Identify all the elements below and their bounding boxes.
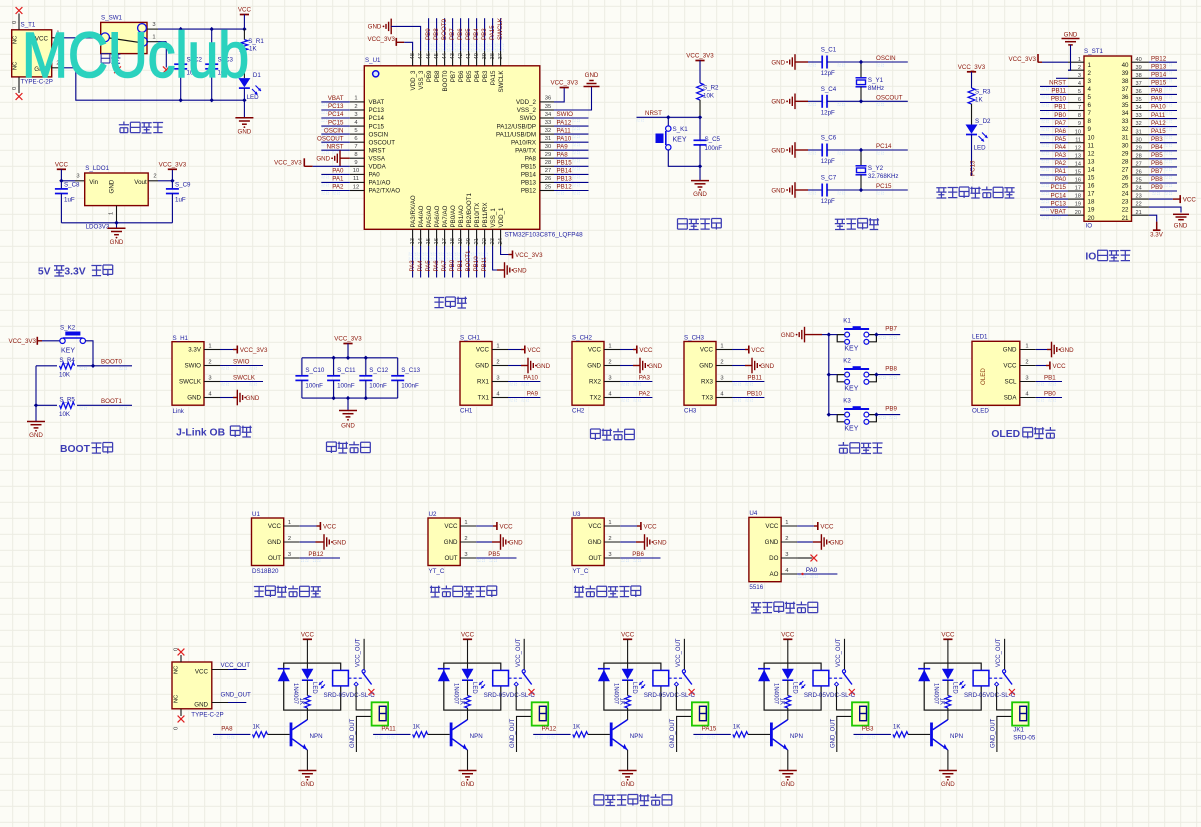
svg-text:PB9: PB9	[425, 28, 432, 40]
svg-text:13: 13	[410, 238, 416, 244]
svg-text:28: 28	[545, 160, 551, 166]
svg-text:VCC: VCC	[588, 523, 602, 530]
svg-text:VDD_3: VDD_3	[410, 70, 417, 91]
svg-text:44: 44	[442, 52, 448, 59]
svg-text:39: 39	[482, 53, 488, 59]
svg-text:10: 10	[1075, 129, 1081, 135]
svg-text:PC15: PC15	[876, 183, 892, 190]
svg-text:1N4007: 1N4007	[292, 683, 298, 705]
svg-text:PA10/RX: PA10/RX	[511, 139, 536, 146]
svg-text:32: 32	[1122, 126, 1129, 133]
svg-text:PB5: PB5	[488, 551, 500, 558]
svg-text:PC15: PC15	[369, 123, 385, 130]
svg-text:VCC: VCC	[765, 523, 779, 530]
svg-text:VSS_2: VSS_2	[517, 107, 537, 114]
svg-text:VCC: VCC	[476, 347, 490, 354]
svg-text:3: 3	[354, 112, 357, 118]
svg-text:PB5: PB5	[466, 70, 473, 82]
svg-text:VCC_OUT: VCC_OUT	[996, 638, 1002, 667]
svg-text:30: 30	[1136, 137, 1142, 143]
svg-text:BOOT0: BOOT0	[442, 70, 449, 92]
svg-text:PB2/BOOT1: PB2/BOOT1	[466, 193, 473, 228]
svg-text:GND: GND	[301, 781, 315, 788]
svg-text:VCC: VCC	[781, 631, 795, 638]
svg-text:GND: GND	[332, 539, 346, 546]
svg-text:SRD-05VDC-SL-C: SRD-05VDC-SL-C	[324, 692, 376, 699]
svg-text:1uF: 1uF	[175, 197, 186, 204]
svg-text:3: 3	[785, 552, 788, 558]
svg-text:15: 15	[1075, 170, 1081, 176]
svg-text:CH3: CH3	[684, 408, 697, 415]
svg-text:1: 1	[109, 212, 115, 215]
svg-text:23: 23	[1122, 199, 1129, 206]
svg-text:0: 0	[12, 87, 18, 90]
svg-text:GND: GND	[588, 539, 602, 546]
svg-text:GND: GND	[187, 395, 201, 402]
svg-text:22: 22	[482, 238, 488, 244]
svg-text:17: 17	[1088, 191, 1095, 198]
svg-text:SWCLK: SWCLK	[498, 70, 505, 93]
svg-text:4: 4	[1078, 81, 1081, 87]
svg-text:39: 39	[1136, 65, 1142, 71]
svg-text:GND: GND	[341, 423, 355, 430]
svg-text:32.768KHz: 32.768KHz	[868, 173, 899, 180]
svg-text:19: 19	[1088, 207, 1095, 214]
svg-text:VDD_2: VDD_2	[516, 99, 537, 106]
svg-text:VCC_3V3: VCC_3V3	[367, 36, 395, 43]
svg-text:U1: U1	[252, 511, 260, 518]
svg-text:VCC_OUT: VCC_OUT	[221, 662, 251, 669]
svg-text:1: 1	[288, 520, 291, 526]
svg-text:35: 35	[1122, 102, 1129, 109]
svg-text:AO: AO	[769, 571, 778, 578]
svg-text:S_U1: S_U1	[365, 57, 381, 64]
svg-text:VCC: VCC	[195, 669, 209, 676]
svg-text:PA6: PA6	[433, 260, 440, 272]
svg-text:SWCLK: SWCLK	[179, 379, 202, 386]
svg-text:PA11: PA11	[381, 725, 396, 732]
svg-text:GND: GND	[109, 179, 116, 193]
svg-text:PB1: PB1	[457, 259, 464, 271]
svg-text:2: 2	[608, 360, 611, 366]
svg-text:PB7: PB7	[885, 326, 897, 333]
svg-text:PA8: PA8	[221, 725, 233, 732]
svg-text:VCC_3V3: VCC_3V3	[958, 64, 986, 71]
svg-text:40: 40	[1122, 62, 1129, 69]
svg-text:PA11: PA11	[1151, 112, 1166, 119]
svg-text:OSCIN: OSCIN	[324, 127, 344, 134]
svg-text:2: 2	[720, 360, 723, 366]
svg-text:PA10: PA10	[557, 135, 572, 142]
svg-text:NC: NC	[13, 36, 19, 44]
svg-text:6: 6	[1078, 97, 1081, 103]
svg-text:7: 7	[1088, 110, 1092, 117]
svg-text:GND: GND	[648, 363, 662, 370]
svg-text:SRD-05VDC-SL-C: SRD-05VDC-SL-C	[644, 692, 696, 699]
svg-text:KEY: KEY	[61, 348, 75, 355]
svg-text:RX3: RX3	[701, 379, 714, 386]
svg-text:PA11: PA11	[557, 127, 572, 134]
svg-text:37: 37	[1122, 86, 1129, 93]
svg-text:2: 2	[208, 360, 211, 366]
svg-text:PA12/USB/DP: PA12/USB/DP	[497, 123, 536, 130]
svg-text:38: 38	[490, 53, 496, 59]
svg-text:3.3V: 3.3V	[64, 267, 85, 278]
svg-text:12pF: 12pF	[821, 158, 835, 165]
svg-text:25: 25	[545, 184, 551, 190]
svg-text:VDDA: VDDA	[369, 164, 387, 171]
svg-text:LED: LED	[631, 682, 637, 694]
svg-text:36: 36	[1136, 89, 1142, 95]
svg-text:VCC: VCC	[461, 631, 475, 638]
svg-text:S_R5: S_R5	[59, 397, 75, 404]
svg-text:VCC_OUT: VCC_OUT	[676, 638, 682, 667]
svg-text:S_C12: S_C12	[369, 367, 388, 374]
svg-text:19: 19	[458, 238, 464, 244]
svg-text:GND: GND	[475, 363, 489, 370]
svg-text:PA2: PA2	[332, 184, 344, 191]
svg-text:OUT: OUT	[444, 555, 457, 562]
svg-text:S_R4: S_R4	[59, 357, 75, 364]
svg-text:PB8: PB8	[434, 70, 441, 82]
svg-text:STM32F103C8T6_LQFP48: STM32F103C8T6_LQFP48	[505, 232, 584, 239]
svg-text:1: 1	[496, 344, 499, 350]
svg-text:LED: LED	[311, 682, 317, 694]
svg-text:5: 5	[1088, 94, 1092, 101]
svg-text:PA1: PA1	[332, 176, 344, 183]
svg-text:OLED: OLED	[991, 429, 1020, 440]
svg-text:Vin: Vin	[89, 179, 98, 186]
svg-text:PA10: PA10	[523, 374, 538, 381]
svg-text:23: 23	[490, 238, 496, 244]
svg-text:PA0: PA0	[369, 172, 381, 179]
svg-text:GND: GND	[621, 781, 635, 788]
svg-text:VBAT: VBAT	[328, 95, 344, 102]
svg-text:PB9: PB9	[426, 70, 433, 82]
svg-text:VSS_1: VSS_1	[490, 208, 497, 228]
svg-text:8: 8	[1078, 113, 1081, 119]
svg-text:PA0: PA0	[806, 567, 818, 574]
svg-text:PB3: PB3	[862, 725, 874, 732]
svg-text:31: 31	[1136, 129, 1142, 135]
svg-text:5516: 5516	[749, 584, 763, 591]
svg-text:31: 31	[545, 136, 551, 142]
svg-text:3: 3	[464, 552, 467, 558]
svg-text:PB7: PB7	[450, 70, 457, 82]
svg-text:26: 26	[1122, 175, 1129, 182]
svg-text:VCC: VCC	[1183, 196, 1197, 203]
svg-text:1K: 1K	[413, 724, 420, 730]
svg-text:GND: GND	[509, 539, 523, 546]
svg-text:OSCOUT: OSCOUT	[876, 94, 903, 101]
svg-text:1: 1	[1088, 62, 1092, 69]
svg-text:S_C13: S_C13	[401, 367, 420, 374]
svg-text:31: 31	[1122, 134, 1129, 141]
svg-text:PB15: PB15	[1151, 80, 1167, 87]
svg-text:SWIO: SWIO	[233, 359, 250, 366]
svg-text:PC13: PC13	[1051, 200, 1067, 207]
svg-text:PA0: PA0	[332, 168, 344, 175]
svg-text:PB11: PB11	[481, 256, 488, 271]
svg-text:PA2: PA2	[1055, 160, 1067, 167]
svg-text:GND: GND	[781, 332, 795, 339]
svg-text:GND: GND	[238, 128, 252, 135]
svg-text:KEY: KEY	[673, 137, 687, 144]
svg-text:1K: 1K	[618, 698, 624, 705]
svg-text:28: 28	[1122, 158, 1129, 165]
svg-text:9: 9	[354, 160, 357, 166]
svg-text:BOOT0: BOOT0	[441, 18, 448, 40]
svg-text:16: 16	[1088, 183, 1095, 190]
svg-text:42: 42	[458, 53, 464, 59]
svg-text:PA8: PA8	[525, 155, 537, 162]
svg-text:23: 23	[1136, 194, 1142, 200]
svg-text:GND_OUT: GND_OUT	[350, 718, 356, 748]
svg-text:NPN: NPN	[790, 733, 803, 740]
svg-text:11: 11	[1088, 142, 1095, 149]
svg-text:1: 1	[208, 344, 211, 350]
svg-text:26: 26	[1136, 170, 1142, 176]
svg-text:5V: 5V	[38, 267, 51, 278]
svg-text:1K: 1K	[298, 698, 304, 705]
svg-text:VCC_3V3: VCC_3V3	[159, 161, 187, 168]
svg-text:BOOT: BOOT	[60, 444, 91, 455]
svg-text:GND: GND	[693, 191, 707, 198]
svg-text:PA2: PA2	[639, 390, 651, 397]
svg-text:PA8: PA8	[557, 151, 569, 158]
svg-text:LED: LED	[247, 94, 260, 101]
svg-text:CH2: CH2	[572, 408, 585, 415]
svg-text:1K: 1K	[939, 698, 945, 705]
svg-text:2: 2	[288, 536, 291, 542]
svg-text:PB12: PB12	[1151, 55, 1167, 62]
svg-text:VCC: VCC	[621, 631, 635, 638]
svg-text:S_C10: S_C10	[305, 367, 324, 374]
svg-text:NPN: NPN	[950, 733, 963, 740]
svg-text:VCC_3V3: VCC_3V3	[8, 338, 36, 345]
svg-text:S_C5: S_C5	[705, 136, 721, 143]
svg-text:K2: K2	[843, 358, 851, 365]
svg-text:SRD-05VDC-SL-C: SRD-05VDC-SL-C	[484, 692, 536, 699]
svg-text:VCC_3V3: VCC_3V3	[334, 336, 362, 343]
svg-text:JK1: JK1	[1013, 727, 1024, 734]
svg-text:S_C4: S_C4	[821, 86, 837, 93]
svg-text:PB3: PB3	[482, 70, 489, 82]
svg-text:2: 2	[1078, 65, 1081, 71]
svg-text:1K: 1K	[458, 698, 464, 705]
svg-text:11: 11	[1075, 137, 1081, 143]
svg-text:PA1: PA1	[1055, 168, 1067, 175]
svg-text:PB13: PB13	[557, 176, 573, 183]
svg-text:10: 10	[1088, 134, 1095, 141]
svg-text:GND: GND	[587, 363, 601, 370]
svg-text:LED: LED	[951, 682, 957, 694]
svg-text:100nF: 100nF	[369, 383, 387, 390]
svg-text:20: 20	[466, 238, 472, 244]
svg-text:SWIO: SWIO	[520, 115, 537, 122]
svg-text:32: 32	[1136, 121, 1142, 127]
svg-text:GND: GND	[653, 539, 667, 546]
svg-text:LDO3V3: LDO3V3	[86, 224, 110, 231]
svg-text:VCC: VCC	[644, 523, 658, 530]
svg-text:PB0/AO: PB0/AO	[450, 205, 457, 228]
svg-text:PA15: PA15	[1151, 128, 1166, 135]
svg-text:27: 27	[1136, 161, 1142, 167]
svg-text:TX3: TX3	[702, 395, 714, 402]
svg-text:VCC: VCC	[301, 631, 315, 638]
svg-text:9: 9	[1088, 126, 1092, 133]
svg-text:VDD_1: VDD_1	[498, 207, 505, 228]
svg-text:SWCLK: SWCLK	[497, 17, 504, 40]
svg-text:13: 13	[1075, 153, 1081, 159]
svg-text:GND: GND	[267, 539, 281, 546]
svg-text:SDA: SDA	[1004, 395, 1018, 402]
svg-text:VCC_OUT: VCC_OUT	[836, 638, 842, 667]
svg-text:PA15: PA15	[489, 25, 496, 40]
svg-text:LED: LED	[471, 682, 477, 694]
svg-text:1: 1	[608, 344, 611, 350]
svg-text:PB4: PB4	[1151, 144, 1163, 151]
svg-text:VCC_OUT: VCC_OUT	[516, 638, 522, 667]
svg-text:13: 13	[1088, 158, 1095, 165]
svg-text:VCC: VCC	[751, 347, 765, 354]
svg-text:PA15: PA15	[490, 70, 497, 85]
svg-text:16: 16	[1075, 178, 1081, 184]
svg-text:VCC_3V3: VCC_3V3	[240, 347, 268, 354]
svg-text:18: 18	[1075, 194, 1081, 200]
svg-text:OSCIN: OSCIN	[876, 55, 896, 62]
svg-text:18: 18	[1088, 199, 1095, 206]
svg-text:33: 33	[1136, 113, 1142, 119]
svg-text:1: 1	[464, 520, 467, 526]
svg-text:NPN: NPN	[310, 733, 323, 740]
svg-text:GND_OUT: GND_OUT	[830, 718, 836, 748]
svg-text:2: 2	[354, 104, 357, 110]
svg-text:PA8: PA8	[1151, 88, 1163, 95]
svg-text:VSS_3: VSS_3	[418, 70, 425, 90]
svg-text:1K: 1K	[893, 724, 900, 730]
svg-text:PA6/AO: PA6/AO	[434, 205, 441, 227]
svg-text:1K: 1K	[733, 724, 740, 730]
svg-text:VCC: VCC	[941, 631, 955, 638]
svg-text:PC13: PC13	[328, 103, 344, 110]
svg-text:PC13: PC13	[369, 107, 385, 114]
svg-text:S_C6: S_C6	[821, 135, 837, 142]
svg-text:21: 21	[1122, 215, 1129, 222]
svg-text:30: 30	[545, 144, 551, 150]
svg-text:PB12: PB12	[521, 188, 537, 195]
svg-text:22: 22	[1122, 207, 1129, 214]
svg-text:SWIO: SWIO	[185, 363, 202, 370]
svg-text:S_Y2: S_Y2	[868, 165, 884, 172]
svg-text:PB11: PB11	[1051, 88, 1066, 95]
svg-text:21: 21	[474, 238, 480, 244]
svg-text:PA12: PA12	[1151, 120, 1166, 127]
svg-text:OSCOUT: OSCOUT	[369, 139, 396, 146]
svg-text:PA9: PA9	[557, 143, 569, 150]
svg-text:1: 1	[785, 520, 788, 526]
svg-text:12pF: 12pF	[821, 70, 835, 77]
svg-text:3: 3	[720, 376, 723, 382]
svg-text:GND: GND	[760, 363, 774, 370]
svg-text:PC14: PC14	[1051, 192, 1067, 199]
svg-text:2: 2	[608, 536, 611, 542]
svg-text:S_LDO1: S_LDO1	[85, 165, 109, 172]
svg-text:3.3V: 3.3V	[1150, 232, 1164, 239]
svg-text:33: 33	[545, 120, 551, 126]
svg-text:NPN: NPN	[630, 733, 643, 740]
svg-text:3: 3	[1078, 73, 1081, 79]
svg-text:SWIO: SWIO	[557, 111, 574, 118]
svg-text:S_C9: S_C9	[175, 182, 191, 189]
svg-text:1: 1	[720, 344, 723, 350]
svg-text:5: 5	[1078, 89, 1081, 95]
svg-text:GND: GND	[110, 239, 124, 246]
svg-text:OUT: OUT	[588, 555, 601, 562]
svg-text:KEY: KEY	[844, 345, 858, 352]
svg-text:PA7/AO: PA7/AO	[442, 205, 449, 227]
svg-text:PB10/TX: PB10/TX	[474, 203, 481, 228]
svg-text:24: 24	[1122, 191, 1129, 198]
svg-text:9: 9	[1078, 121, 1081, 127]
svg-text:40: 40	[1136, 57, 1142, 63]
svg-text:39: 39	[1122, 70, 1129, 77]
svg-text:GND: GND	[1064, 32, 1078, 39]
svg-text:21: 21	[1136, 210, 1142, 216]
svg-text:3: 3	[288, 552, 291, 558]
svg-text:3: 3	[496, 376, 499, 382]
svg-text:7: 7	[1078, 105, 1081, 111]
svg-text:PA4: PA4	[1055, 144, 1067, 151]
svg-text:IO: IO	[1086, 223, 1093, 230]
svg-text:1K: 1K	[779, 698, 785, 705]
svg-text:20: 20	[1075, 210, 1081, 216]
svg-text:GND_OUT: GND_OUT	[991, 718, 997, 748]
svg-text:GND: GND	[771, 187, 785, 194]
svg-text:KEY: KEY	[844, 425, 858, 432]
svg-text:11: 11	[353, 176, 359, 182]
svg-text:29: 29	[545, 152, 551, 158]
svg-text:10K: 10K	[59, 411, 71, 418]
svg-text:SRD-05VDC-SL-C: SRD-05VDC-SL-C	[804, 692, 856, 699]
svg-text:S_ST1: S_ST1	[1084, 48, 1103, 55]
svg-text:YT_C: YT_C	[429, 568, 445, 575]
svg-text:PB12: PB12	[308, 551, 324, 558]
svg-text:PB13: PB13	[521, 180, 537, 187]
svg-text:S_C1: S_C1	[821, 47, 837, 54]
svg-text:PB10: PB10	[1051, 96, 1067, 103]
svg-text:LED1: LED1	[972, 334, 988, 341]
svg-text:24: 24	[498, 237, 504, 244]
svg-text:2: 2	[785, 536, 788, 542]
svg-text:20: 20	[1088, 215, 1095, 222]
svg-text:VCC_3V3: VCC_3V3	[550, 80, 578, 87]
svg-text:PB6: PB6	[1151, 160, 1163, 167]
svg-text:PB15: PB15	[557, 160, 573, 167]
svg-text:1: 1	[354, 96, 357, 102]
svg-text:OSCOUT: OSCOUT	[317, 135, 344, 142]
svg-text:RX2: RX2	[589, 379, 602, 386]
svg-text:18: 18	[450, 238, 456, 244]
svg-text:NPN: NPN	[470, 733, 483, 740]
svg-text:GND: GND	[246, 395, 260, 402]
svg-text:GND: GND	[536, 363, 550, 370]
svg-text:BOOT1: BOOT1	[101, 398, 123, 405]
svg-text:0: 0	[174, 727, 180, 730]
svg-text:36: 36	[545, 96, 551, 102]
svg-text:SCL: SCL	[1004, 379, 1017, 386]
svg-text:GND_OUT: GND_OUT	[221, 692, 251, 699]
